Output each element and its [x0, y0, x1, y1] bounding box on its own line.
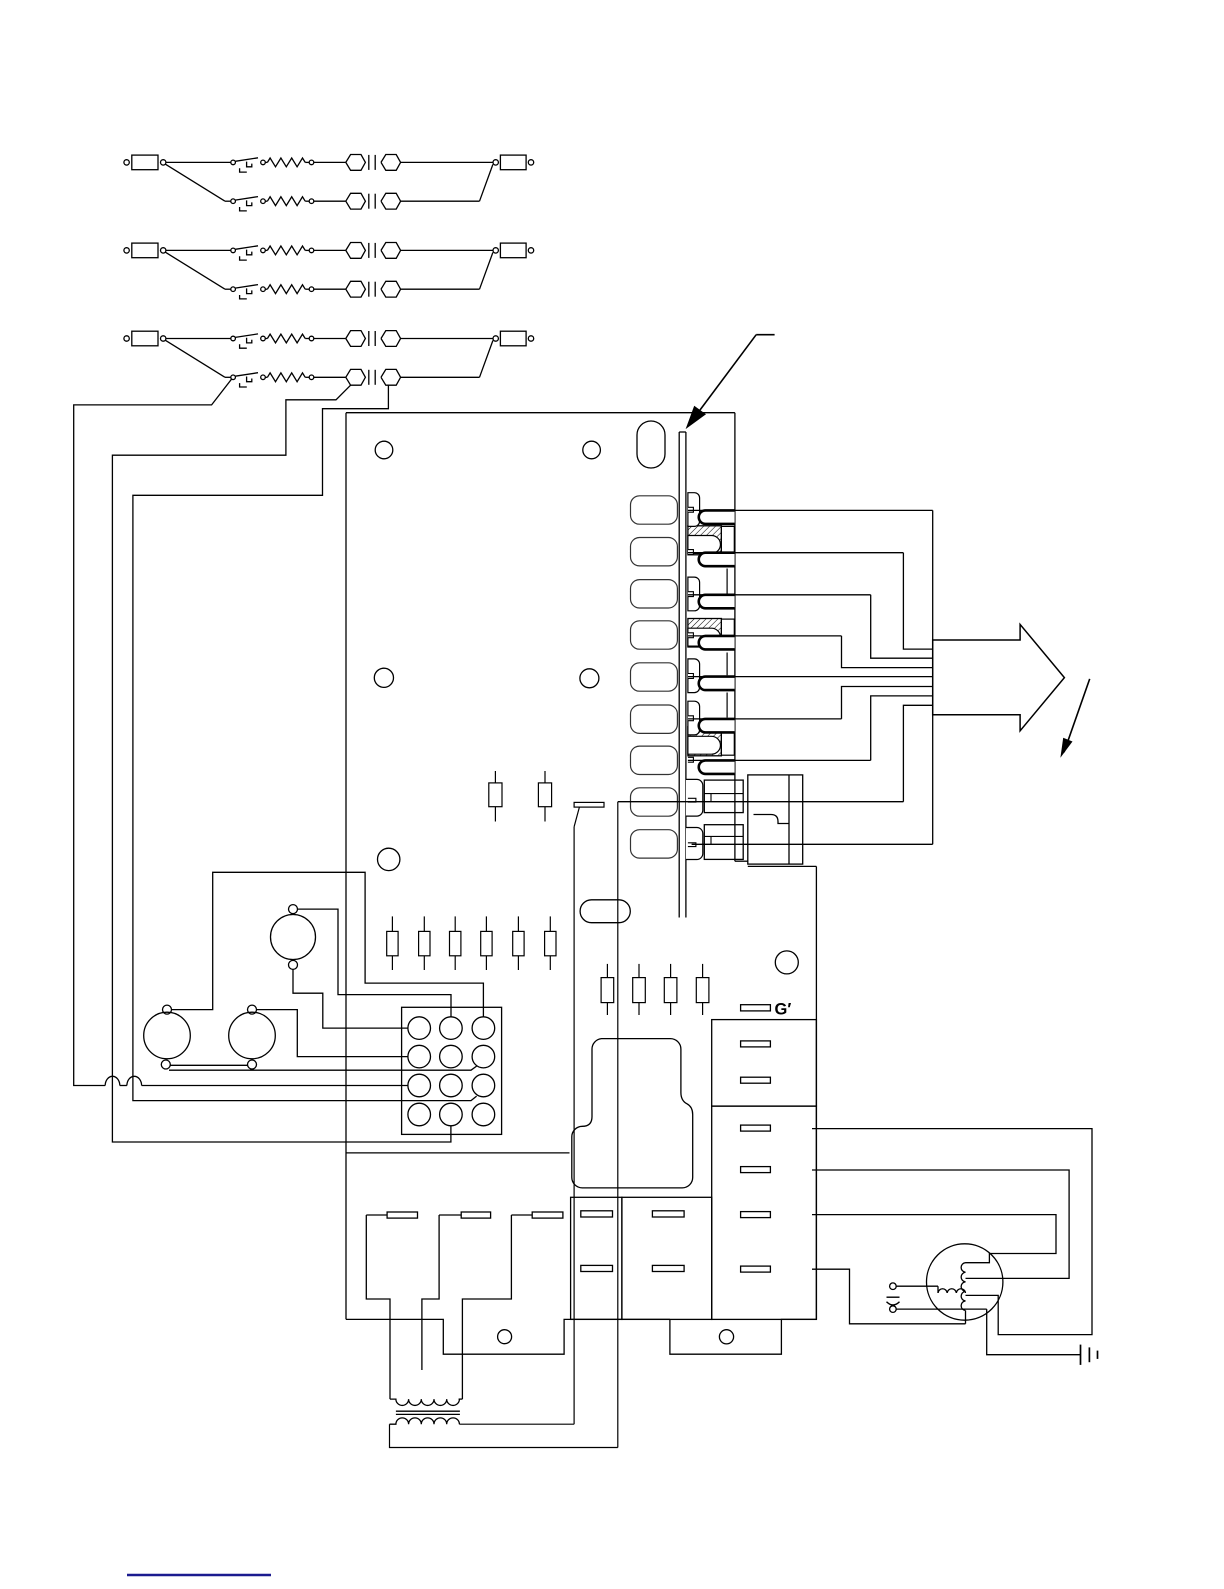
svg-text:G′: G′	[775, 1001, 792, 1019]
